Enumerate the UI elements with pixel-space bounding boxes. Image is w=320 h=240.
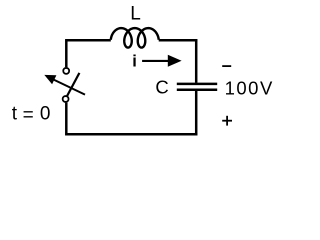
switch S1 blade [67,73,80,97]
wire top-left horizontal segment [65,39,110,42]
wire bottom horizontal [65,133,197,136]
wire left vertical lower segment [65,103,68,136]
capacitor C1 top plate [177,83,217,86]
capacitor C1 bottom plate [177,89,217,92]
svg-text:C: C [155,76,168,97]
switch S1 top contact [63,68,69,74]
current arrow shaft [142,60,169,62]
inductor L1 coil [111,28,159,47]
wire top-right horizontal segment [159,39,198,42]
svg-text:L: L [130,4,141,25]
svg-text:i: i [132,53,137,71]
plus polarity mark horizontal [222,120,232,122]
wire left vertical upper segment [65,39,68,67]
switch S1 bottom contact [63,96,69,102]
current arrowhead [168,55,182,67]
switch motion arrow shaft [50,78,85,95]
minus polarity mark [222,65,231,67]
switch motion arrowhead [44,75,56,84]
svg-text:t=0: t=0 [12,104,51,126]
svg-text:100V: 100V [225,77,274,98]
wire right vertical upper segment [195,39,198,83]
plus polarity mark vertical [226,116,228,126]
wire right vertical lower segment [195,91,198,135]
